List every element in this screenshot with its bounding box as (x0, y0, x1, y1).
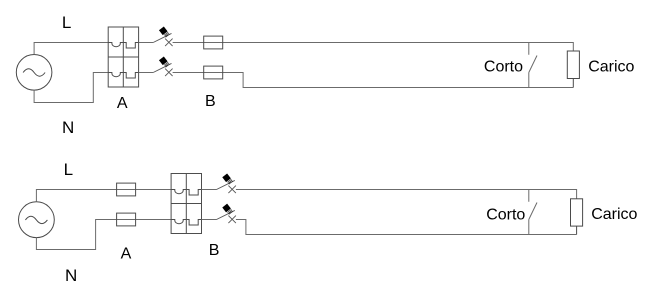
switch S1 actuator square (159, 26, 170, 37)
breaker A outline (2-pole thermal-magnetic) (108, 27, 138, 87)
switch S4 actuator square (222, 204, 233, 215)
svg-text:Carico: Carico (588, 58, 634, 75)
breaker A pole 2 magnetic release (arc) (108, 73, 123, 77)
svg-text:A: A (121, 246, 132, 263)
short-circuit switch (Corto bottom) (529, 190, 537, 235)
wire S1 to fuse B1 and on to load corner (173, 43, 574, 52)
breaker B pole 1 thermal release (notch) (186, 190, 201, 196)
switch S2 blade (153, 63, 171, 72)
wire L from source to fuse A1 (36, 190, 171, 202)
fuse B2 (204, 66, 223, 79)
switch S2 actuator square (159, 56, 170, 67)
wire S4 to bottom rail (236, 220, 577, 235)
breaker B outline (2-pole thermal-magnetic) (171, 174, 201, 234)
ac source G1 (16, 55, 52, 91)
wire breaker A to switch S1 (139, 42, 154, 44)
load resistor (Carico) (567, 51, 579, 88)
svg-text:N: N (65, 266, 77, 285)
fuse B1 (204, 36, 223, 49)
svg-text:L: L (64, 160, 73, 179)
wire S2 to fuse B2 and bottom rail (173, 73, 574, 88)
svg-text:Carico: Carico (591, 206, 637, 223)
switch S4 blade (217, 210, 235, 219)
svg-text:Corto: Corto (486, 207, 525, 224)
switch S4 breaker contact X (228, 216, 236, 224)
svg-text:A: A (117, 95, 128, 112)
breaker B pole 1 magnetic release (arc) (171, 190, 186, 194)
wire N from source bottom to lower pole (34, 73, 108, 103)
wire breaker A to switch S2 (139, 72, 154, 74)
wire breaker B to switch S3 (202, 189, 217, 191)
switch S2 breaker contact X (165, 69, 173, 77)
svg-text:N: N (62, 118, 74, 137)
fuse A1 (117, 183, 136, 196)
breaker A pole 1 thermal release (notch) (123, 43, 138, 49)
svg-text:L: L (62, 13, 71, 32)
wire L from source to breaker A (34, 43, 108, 55)
short-circuit switch (Corto) (529, 43, 537, 88)
switch S1 breaker contact X (165, 39, 173, 47)
ac source G2 (19, 202, 55, 238)
breaker A pole 1 magnetic release (arc) (108, 43, 123, 47)
fuse A2 (117, 213, 136, 226)
switch S1 blade (153, 33, 171, 42)
svg-text:B: B (209, 242, 220, 259)
svg-text:B: B (205, 93, 216, 110)
wire N from source bottom to lower pole (36, 220, 171, 250)
breaker B pole 2 thermal release (notch) (186, 220, 201, 226)
breaker A pole 2 thermal release (notch) (123, 73, 138, 79)
wire S3 to load corner (236, 190, 577, 199)
breaker B pole 2 magnetic release (arc) (171, 220, 186, 224)
svg-text:Corto: Corto (484, 58, 523, 75)
switch S3 actuator square (222, 173, 233, 184)
wire breaker B to switch S4 (202, 219, 217, 221)
switch S3 breaker contact X (228, 186, 236, 194)
switch S3 blade (217, 180, 235, 189)
load resistor (Carico bottom) (571, 199, 583, 235)
